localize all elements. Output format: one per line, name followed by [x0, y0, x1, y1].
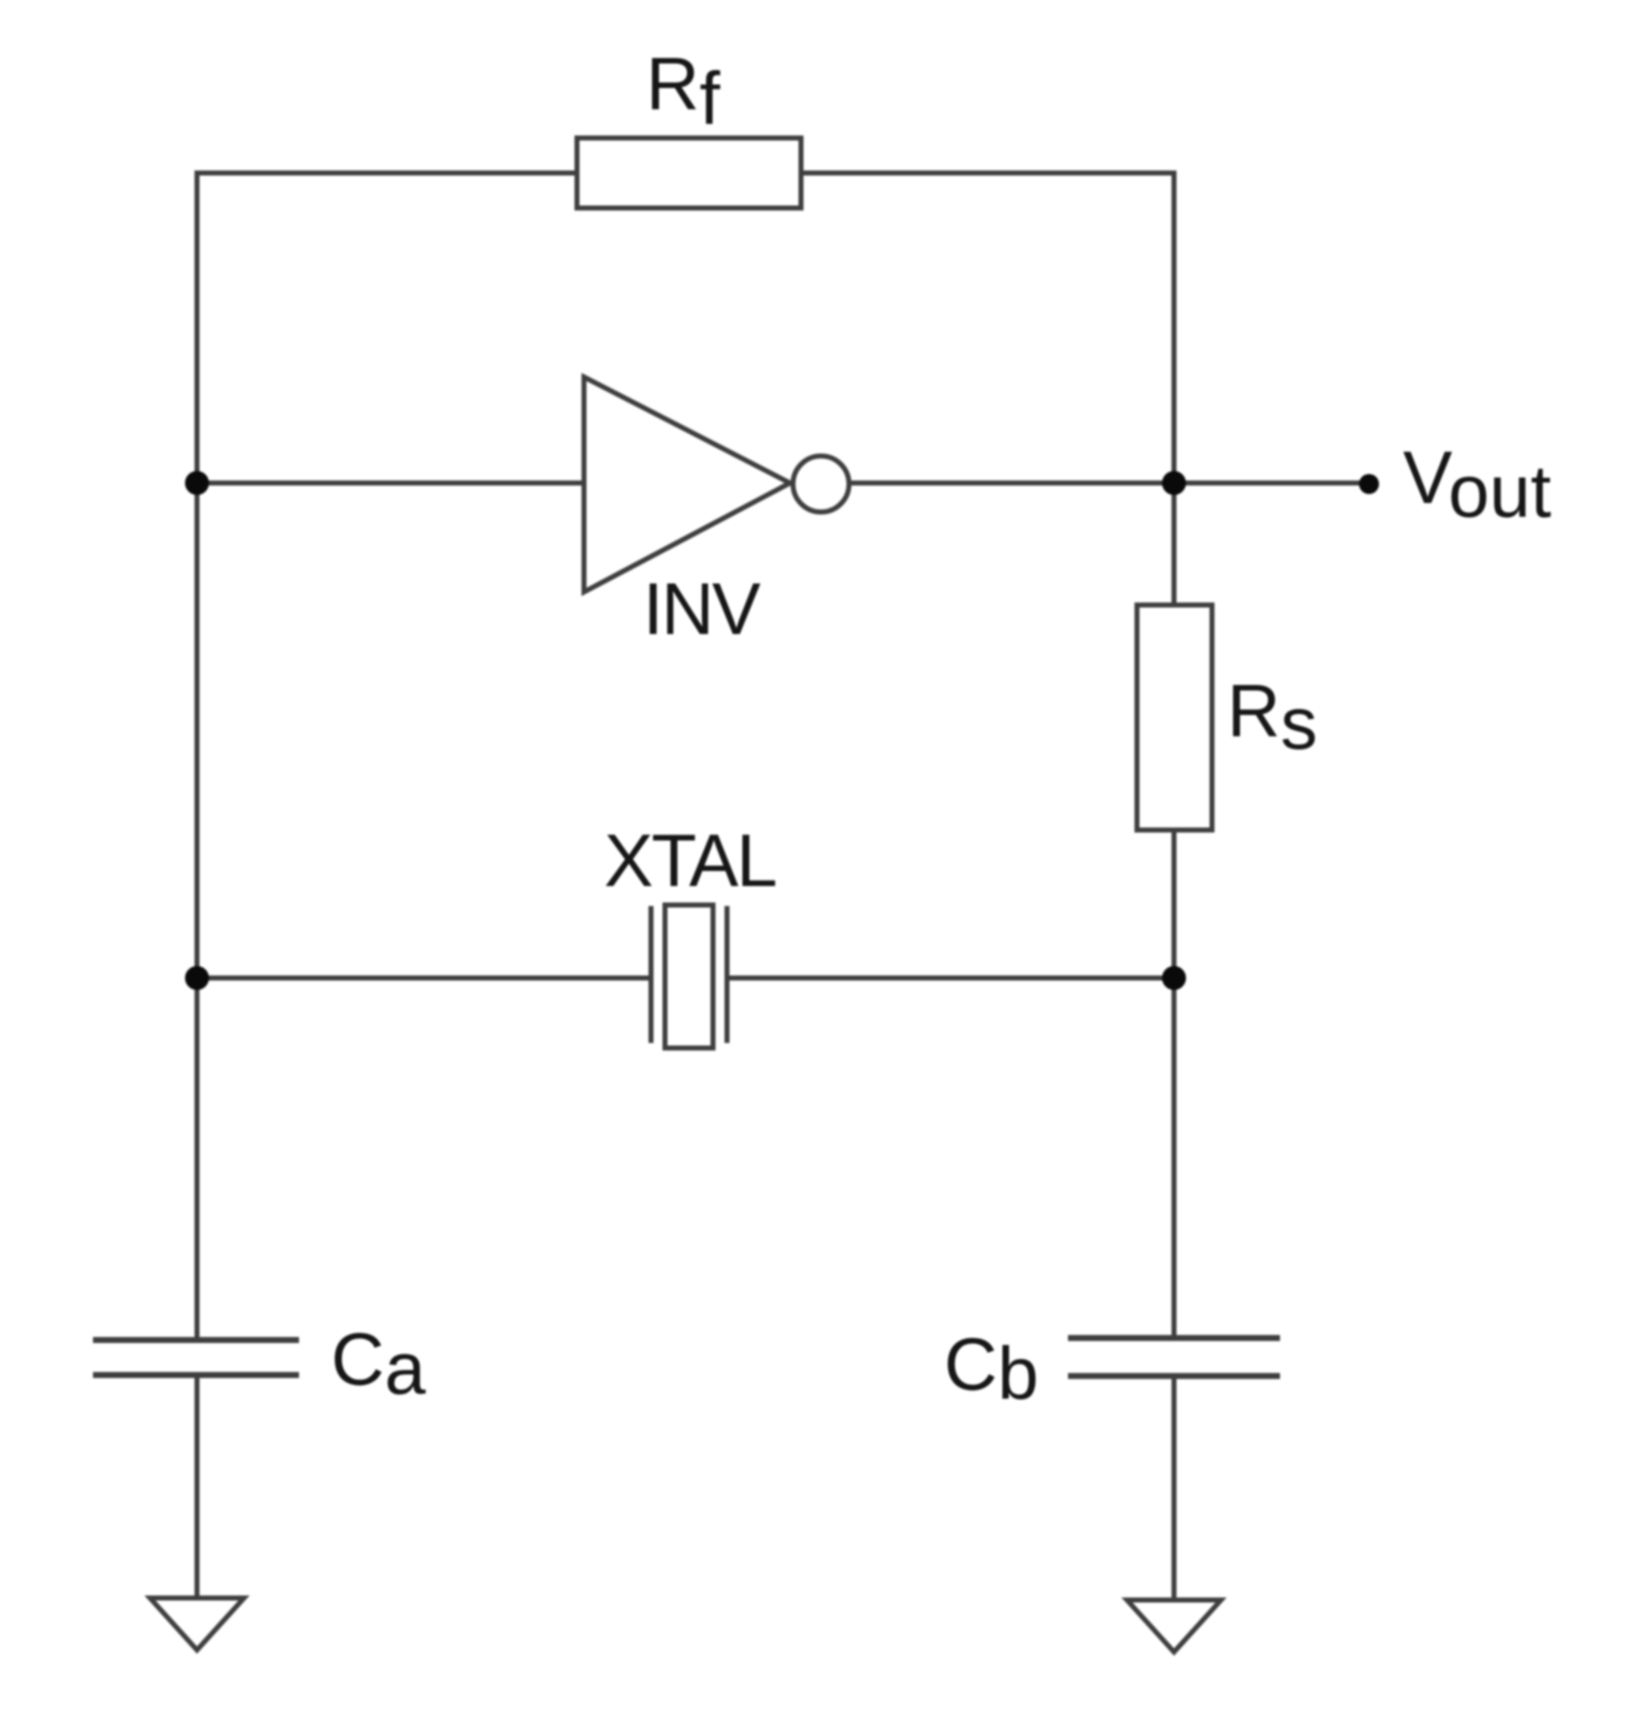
wire inverter input [197, 481, 584, 486]
resistor Rs [1137, 605, 1212, 830]
wire inverter output to Vout [849, 481, 1369, 486]
svg-text:Ca: Ca [331, 1318, 426, 1410]
ground left [150, 1598, 244, 1650]
wire left vertical rail [195, 173, 200, 1340]
resistor Rf [577, 138, 801, 208]
op-amp U1 inverter INV triangle [584, 377, 790, 592]
wire Ca to ground [195, 1375, 200, 1598]
capacitor Cb top plate [1068, 1335, 1280, 1341]
wire right vertical rail to Cb [1172, 978, 1177, 1338]
capacitor Cb bottom plate [1068, 1373, 1280, 1379]
svg-text:Rs: Rs [1227, 669, 1317, 765]
node output junction right [1162, 471, 1186, 495]
wire top horizontal (Rf net) [197, 171, 1174, 176]
capacitor Ca bottom plate [93, 1372, 299, 1378]
crystal XTAL body [665, 905, 713, 1048]
crystal XTAL right electrode [725, 906, 730, 1043]
inverter bubble [793, 456, 849, 512]
svg-text:Vout: Vout [1403, 436, 1552, 533]
node XTAL junction left [185, 966, 209, 990]
capacitor Ca top plate [93, 1337, 299, 1343]
node input junction left [185, 471, 209, 495]
wire Cb to ground [1172, 1376, 1177, 1600]
ground right [1127, 1600, 1221, 1652]
wire XTAL left [197, 976, 651, 981]
wire right vertical rail Rs to XTAL node [1172, 830, 1177, 978]
wire right vertical rail top [1172, 173, 1177, 605]
node Vout terminal [1359, 474, 1379, 494]
svg-text:XTAL: XTAL [604, 819, 776, 902]
svg-text:Rf: Rf [646, 42, 720, 140]
node XTAL junction right [1162, 966, 1186, 990]
svg-text:Cb: Cb [944, 1323, 1039, 1415]
svg-text:INV: INV [643, 569, 761, 650]
crystal XTAL left electrode [649, 906, 654, 1043]
wire XTAL right [727, 976, 1174, 981]
